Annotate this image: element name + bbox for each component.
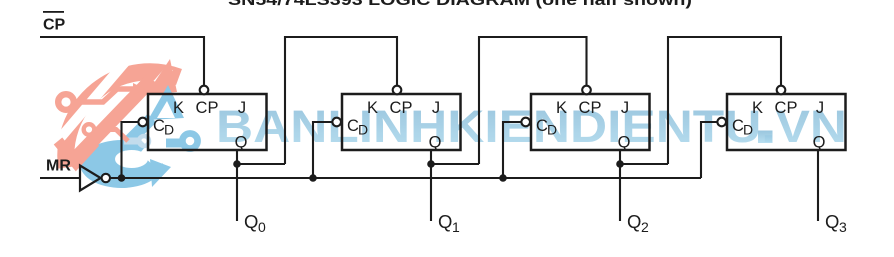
salmon trace arrow: [133, 83, 145, 95]
salmon arrow tip: [146, 59, 177, 95]
flip-flop U4 box: [727, 94, 846, 150]
salmon pad big donut: [58, 94, 74, 110]
blue diagonal band: [100, 118, 152, 170]
bubble CD U1: [138, 118, 147, 127]
svg-text:CP: CP: [775, 99, 798, 117]
bubble CD U2: [332, 118, 341, 127]
svg-text:Q: Q: [438, 211, 452, 232]
svg-text:J: J: [621, 99, 629, 117]
junction dot Q1: [427, 160, 435, 168]
wire CP vertical to FF1: [203, 36, 205, 86]
bubble CP U2: [393, 86, 402, 95]
pale blue pad donut: [139, 136, 149, 146]
salmon trace 2: [95, 130, 128, 142]
wire Q0 branch horizontal: [237, 163, 285, 165]
pale blue trace: [124, 138, 138, 145]
svg-text:D: D: [358, 122, 368, 138]
svg-text:1: 1: [452, 219, 460, 235]
svg-text:SN54/74LS393 LOGIC DIAGRAM (on: SN54/74LS393 LOGIC DIAGRAM (one half sho…: [228, 0, 692, 9]
wire CD feed U2: [313, 122, 332, 178]
blue chevron arrow: [148, 85, 184, 120]
svg-text:CP: CP: [196, 99, 219, 117]
svg-text:2: 2: [641, 219, 649, 235]
bubble CP U1: [200, 86, 209, 95]
watermark square period: [758, 131, 773, 144]
blue G arrow tip: [150, 159, 171, 187]
wire MR input: [40, 177, 80, 179]
wire Q1 branch up: [479, 37, 587, 164]
salmon pad small donut: [84, 124, 95, 135]
pale blue wide diagonal band: [97, 137, 138, 178]
bubble CP U4: [777, 86, 786, 95]
blue G hole: [115, 150, 148, 168]
watermark logo banlinhkiendientu: [50, 33, 198, 196]
salmon ring arc: [66, 72, 179, 168]
wire CD feed U1: [122, 122, 139, 178]
svg-text:3: 3: [839, 219, 847, 235]
wire Q0 branch up: [285, 37, 397, 164]
svg-text:K: K: [173, 99, 184, 117]
svg-text:Q: Q: [825, 211, 839, 232]
U2 pin labels: [347, 99, 442, 152]
svg-text:D: D: [743, 122, 753, 138]
wire CD feed U4: [701, 122, 717, 178]
inverter bubble: [102, 174, 110, 182]
flip-flop U1 box: [148, 94, 267, 150]
blue G swoosh: [80, 140, 163, 188]
svg-text:K: K: [752, 99, 763, 117]
wire Q2 vertical: [619, 150, 621, 221]
junction dot MR-CD3: [499, 174, 507, 182]
white slash gap lower: [60, 68, 170, 196]
svg-text:J: J: [238, 99, 246, 117]
junction dot MR-CD2: [309, 174, 317, 182]
junction dot MR-CD1: [118, 174, 126, 182]
wire Q1 branch horizontal: [431, 163, 479, 165]
wire CD feed U3: [503, 122, 521, 178]
blue pad donut: [182, 133, 197, 148]
wire Q2 branch horizontal: [620, 163, 668, 165]
svg-text:Q: Q: [627, 211, 641, 232]
svg-text:MR: MR: [46, 158, 71, 175]
svg-text:J: J: [816, 99, 824, 117]
salmon diagonal band: [70, 79, 152, 164]
blue pad tail: [166, 139, 182, 148]
flip-flop U3 box: [531, 94, 650, 150]
svg-text:K: K: [367, 99, 378, 117]
svg-text:D: D: [547, 122, 557, 138]
svg-text:Q: Q: [618, 134, 631, 152]
bubble CD U3: [521, 118, 530, 127]
bubble CP U3: [582, 86, 591, 95]
wire Q0 vertical: [236, 150, 238, 221]
junction dot Q2: [616, 160, 624, 168]
U3 pin labels: [536, 99, 631, 152]
U1 pin labels: [153, 99, 248, 152]
svg-text:CP: CP: [43, 17, 66, 34]
blue G opening notch: [140, 139, 172, 168]
svg-text:Q: Q: [813, 134, 826, 152]
svg-text:0: 0: [258, 219, 266, 235]
bubble CD U4: [717, 118, 726, 127]
wire MR line: [110, 177, 701, 179]
white slash gap upper: [50, 33, 150, 150]
svg-text:J: J: [432, 99, 440, 117]
wire CP horizontal: [40, 36, 204, 38]
junction dot Q0: [233, 160, 241, 168]
svg-text:K: K: [556, 99, 567, 117]
blue arrow notch: [157, 101, 175, 118]
svg-text:Q: Q: [244, 211, 258, 232]
salmon ring end chevron: [58, 141, 95, 163]
svg-text:CP: CP: [390, 99, 413, 117]
inverter triangle: [80, 166, 101, 191]
flip-flop U2 box: [342, 94, 461, 150]
CP overbar: [43, 11, 64, 13]
svg-text:Q: Q: [429, 134, 442, 152]
svg-text:D: D: [164, 122, 174, 138]
svg-text:Q: Q: [235, 134, 248, 152]
output labels: [244, 211, 847, 235]
svg-text:CP: CP: [579, 99, 602, 117]
wire Q2 branch up: [668, 37, 781, 164]
wire Q3 vertical: [817, 150, 819, 221]
U4 pin labels: [732, 99, 826, 152]
salmon trace 1: [75, 89, 134, 102]
wire Q1 vertical: [430, 150, 432, 221]
